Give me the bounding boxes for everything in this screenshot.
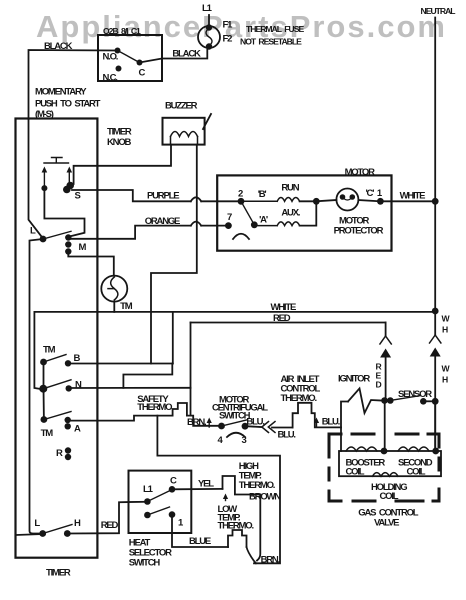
centrifugal switch contact 4 dot [218, 423, 225, 430]
svg-text:'B': 'B' [258, 189, 267, 200]
neutral junction dot at motor white [432, 198, 439, 205]
wire RED timer H to heat selector L1 [67, 502, 147, 534]
svg-text:TIMER: TIMER [107, 127, 132, 138]
sensor blade [390, 396, 420, 401]
ignitor junction dots [381, 397, 388, 404]
svg-text:BRN.: BRN. [261, 555, 280, 566]
push-to-start N.C. contact dot [116, 66, 122, 72]
wire protector to C 1 terminal [358, 200, 380, 201]
heat selector blade L1-1 [147, 507, 169, 515]
holding coil winding [373, 473, 399, 477]
wire M bottom to timer motor TM [68, 252, 114, 276]
wire connector to air inlet thermostat [272, 427, 293, 429]
svg-text:THERMO.: THERMO. [137, 402, 173, 413]
wire ORANGE from M to motor terminal 7 [68, 226, 191, 239]
motor protector dots [340, 194, 346, 200]
wire RED bus [191, 322, 386, 324]
push-to-start C contact dot [137, 60, 143, 66]
wire 3 to connector [245, 425, 261, 428]
svg-text:WHITE: WHITE [271, 302, 296, 313]
motor protector circle [336, 189, 358, 211]
svg-text:COIL: COIL [380, 491, 399, 502]
svg-text:IGNITOR: IGNITOR [338, 374, 370, 385]
wire white branch down to B wire [172, 312, 174, 364]
timer bottom H dot [64, 530, 71, 537]
timer N contact dot [66, 385, 72, 391]
wire WHITE bus [34, 311, 435, 313]
air inlet control thermostat symbol [293, 403, 341, 428]
fuse terminal F2 dot [206, 43, 212, 49]
svg-text:O2B 8/I C1: O2B 8/I C1 [103, 26, 141, 36]
motor switch blade 2-A [241, 201, 254, 225]
motor terminal 2 dot [238, 198, 245, 205]
push-to-start switch blade [118, 51, 140, 63]
svg-text:H: H [442, 325, 448, 335]
svg-text:BLU.: BLU. [278, 430, 296, 441]
wire M-S left contact to M contact [44, 188, 84, 237]
timer S contact dots [66, 182, 74, 190]
svg-text:TIMER: TIMER [46, 568, 71, 579]
timer box [16, 119, 98, 558]
M-S left contact arrow [43, 170, 45, 186]
buzzer corner tick [203, 114, 211, 129]
svg-text:ORANGE: ORANGE [145, 216, 180, 227]
heat selector blade L1-C [147, 491, 170, 502]
fuse element squiggle [206, 28, 212, 46]
centrifugal actuator arc [227, 433, 245, 437]
svg-text:WHITE: WHITE [400, 191, 425, 202]
heat selector C dot [169, 486, 176, 493]
wire N window segments [123, 364, 172, 388]
svg-text:BLACK: BLACK [172, 49, 201, 60]
red connector arrow [380, 349, 391, 358]
svg-text:S: S [75, 191, 81, 202]
wire YEL heat selector C to high temp thermostat [172, 488, 223, 490]
svg-text:F2: F2 [223, 34, 233, 45]
timer blade to A [44, 412, 71, 420]
svg-text:PUSH TO START: PUSH TO START [35, 99, 101, 110]
svg-text:TM: TM [43, 345, 56, 356]
svg-text:H: H [442, 375, 448, 385]
wire red right vertical [385, 323, 387, 337]
timer bottom L dot [39, 530, 46, 537]
neutral junction dot at sensor [432, 398, 439, 405]
wire BLACK from push-to-start switch C to fuse F2 [140, 49, 208, 63]
svg-text:PROTECTOR: PROTECTOR [334, 226, 384, 237]
timer pivot column wire [43, 362, 45, 420]
svg-text:SWITCH: SWITCH [129, 558, 161, 569]
motor terminal 7 dot [225, 222, 232, 229]
timer blade to N [43, 380, 71, 389]
M-S left contact dot [41, 185, 47, 191]
svg-text:MOMENTARY: MOMENTARY [35, 87, 87, 98]
heat selector 1 dot [169, 511, 176, 518]
svg-text:VALVE: VALVE [374, 518, 399, 529]
buzzer box [163, 118, 205, 145]
second coil junction dot [432, 448, 439, 455]
svg-text:BUZZER: BUZZER [165, 101, 198, 112]
svg-text:BLACK: BLACK [44, 41, 73, 52]
booster junction dot [381, 448, 388, 455]
wire neutral down to second coil [434, 401, 436, 451]
sensor right dot [420, 398, 427, 405]
buzzer coil [171, 137, 198, 145]
timer bottom L-H blade [43, 525, 72, 534]
orange wire hop over buzzer wire [191, 222, 201, 226]
BRN arrow marker [208, 421, 210, 428]
wire white bus left drop to timer N pivot [34, 312, 39, 389]
timer L-M switch blade [43, 231, 71, 239]
heat selector L1 dots [144, 498, 151, 505]
wire PURPLE from S to motor terminal 2 [72, 190, 191, 201]
svg-text:TM: TM [120, 301, 133, 312]
timer M contact dots [65, 234, 71, 240]
ignitor element zigzag [348, 388, 381, 413]
BLU arrow marker [316, 421, 318, 428]
svg-text:NEUTRAL: NEUTRAL [421, 6, 456, 16]
fuse F1/F2 thermal fuse circle [198, 26, 220, 48]
wire blu riser to ignitor [341, 402, 348, 428]
svg-text:'C' 1: 'C' 1 [366, 188, 383, 199]
svg-text:THERMAL FUSE: THERMAL FUSE [246, 24, 304, 34]
safety thermostat symbol [173, 403, 218, 426]
svg-text:D: D [376, 380, 382, 390]
wire WHITE motor to neutral [380, 200, 435, 202]
timer blade to B [44, 355, 67, 363]
wire bottom L to timer left edge [16, 534, 43, 535]
wire blu riser down to booster coil box [340, 427, 342, 451]
svg-text:'A': 'A' [259, 214, 268, 225]
motor terminal C 1 dot [377, 198, 384, 205]
svg-text:YEL: YEL [198, 479, 214, 490]
timer N pivot dot [39, 385, 47, 393]
wire buzzer right pin down to B-wire [151, 145, 197, 364]
svg-text:BLU.: BLU. [246, 417, 264, 428]
push-to-start N.O. contact dot [115, 48, 121, 54]
wire BROWN down [257, 495, 260, 561]
high temp thermostat symbol [223, 476, 261, 495]
M-S right contact arrow [68, 170, 70, 182]
gas valve coil box [339, 451, 441, 476]
svg-text:THERMO.: THERMO. [239, 480, 275, 491]
red connector chevron [380, 336, 391, 344]
centrifugal switch contact 3 dot [242, 423, 249, 430]
neutral junction dot at white bus [432, 308, 439, 315]
wire NEUTRAL vertical [434, 18, 436, 336]
centrifugal switch blade [222, 420, 248, 426]
svg-text:BLU.: BLU. [322, 417, 340, 428]
svg-text:KNOB: KNOB [107, 137, 132, 148]
motor A contact dot [251, 221, 258, 228]
wire B to white branch [68, 363, 173, 365]
wire junction to motor protector [316, 200, 336, 201]
heat selector switch box [129, 471, 192, 533]
wire AUX to junction [300, 201, 317, 225]
wire ignitor junction down to booster coil [384, 401, 386, 452]
wire TM bottom to WHITE bus [113, 302, 115, 312]
fuse terminal F1 dot [206, 24, 212, 30]
booster coil winding [346, 447, 377, 451]
svg-text:AUX.: AUX. [281, 207, 299, 218]
wire BRN loop around thermo block [157, 416, 280, 564]
motor AUX winding [254, 222, 299, 226]
motor RUN winding [241, 198, 300, 202]
timer TM-B pivot dot [40, 359, 47, 366]
svg-text:PURPLE: PURPLE [147, 191, 179, 202]
svg-text:BRN.: BRN. [187, 417, 206, 428]
wire left BLACK feed from timer to push-to-start switch [29, 50, 118, 119]
svg-text:COIL: COIL [407, 467, 426, 478]
svg-text:RUN: RUN [281, 183, 299, 194]
neutral connector chevron [430, 335, 441, 343]
timer motor TM circle [101, 276, 127, 302]
motor junction dot [313, 198, 320, 205]
svg-text:COIL: COIL [346, 467, 365, 478]
svg-text:RED: RED [101, 520, 119, 531]
timer L contact dot [40, 236, 47, 243]
svg-text:THERMO.: THERMO. [218, 521, 254, 532]
timer A contact dots [65, 417, 71, 423]
svg-text:RED: RED [273, 313, 291, 324]
svg-text:BROWN: BROWN [249, 492, 281, 503]
second coil winding [398, 447, 429, 451]
TM squiggle [108, 277, 118, 300]
node L1 wire top stub [208, 15, 210, 26]
low temp thermostat symbol [228, 530, 247, 547]
wire 1 to BLUE to low temp thermostat [172, 515, 228, 547]
svg-text:N.C.: N.C. [103, 73, 118, 84]
timer TM-A pivot dot [41, 416, 48, 423]
wire from L contact down to bottom L contact [30, 239, 44, 534]
svg-text:THERMO.: THERMO. [281, 393, 317, 404]
gas control valve dashed box [329, 434, 439, 501]
timer B contact dot [65, 360, 71, 366]
svg-text:NOT RESETABLE: NOT RESETABLE [240, 37, 302, 47]
wire N staircase [69, 387, 191, 389]
purple wire hop over buzzer wire [191, 197, 201, 201]
BLU chevron connector [262, 422, 275, 433]
push-to-start switch box [98, 35, 162, 81]
svg-text:SENSOR: SENSOR [398, 389, 432, 400]
wire sensor to neutral [423, 400, 435, 402]
svg-text:(M-S): (M-S) [35, 109, 54, 120]
wire black inside timer down to L contact [29, 119, 44, 239]
svg-text:N.O.: N.O. [103, 52, 118, 63]
svg-text:MOTOR: MOTOR [345, 167, 376, 178]
timer R spare dots [65, 447, 71, 453]
svg-text:BLUE: BLUE [189, 536, 211, 547]
wire red left vertical to N junction [190, 323, 192, 388]
wire A to safety thermostat [68, 416, 173, 421]
motor box [217, 175, 391, 250]
wire red/N junction down to safety output [190, 388, 192, 416]
svg-text:TM: TM [41, 428, 54, 439]
wire S contact up to buzzer [74, 145, 171, 184]
neutral connector arrow [430, 348, 441, 357]
momentary push-to-start T actuator symbol [44, 158, 69, 164]
brown arrow marker [225, 497, 227, 501]
wire low temp diagonal to brn node [247, 547, 257, 563]
motor centrifugal actuator arc [233, 234, 249, 239]
